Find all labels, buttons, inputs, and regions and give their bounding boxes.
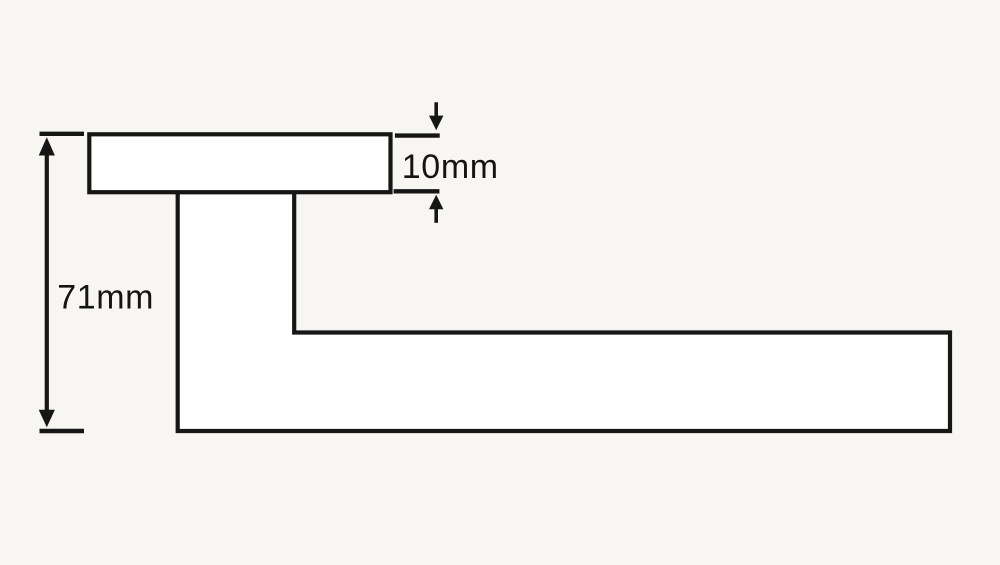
- svg-text:10mm: 10mm: [402, 148, 499, 186]
- svg-text:71mm: 71mm: [57, 279, 154, 317]
- handle lever L-shape (stem + lever), white fill: [178, 192, 950, 431]
- left dimension: vertical line: [45, 152, 49, 413]
- right dimension: lower arrow tail: [434, 208, 438, 223]
- left dimension: top tick: [40, 132, 85, 136]
- right dimension: top tick: [395, 133, 440, 137]
- right dimension: upper arrow tail: [434, 102, 438, 118]
- right dimension: upper arrowhead (down): [429, 116, 443, 131]
- left dimension: top arrowhead: [39, 137, 55, 155]
- left dimension: bottom tick: [40, 429, 85, 433]
- right dimension: lower arrowhead (up): [429, 195, 443, 209]
- left dimension: bottom arrowhead: [39, 410, 55, 428]
- top plate rectangle: [89, 134, 390, 192]
- right dimension: bottom tick: [394, 189, 440, 193]
